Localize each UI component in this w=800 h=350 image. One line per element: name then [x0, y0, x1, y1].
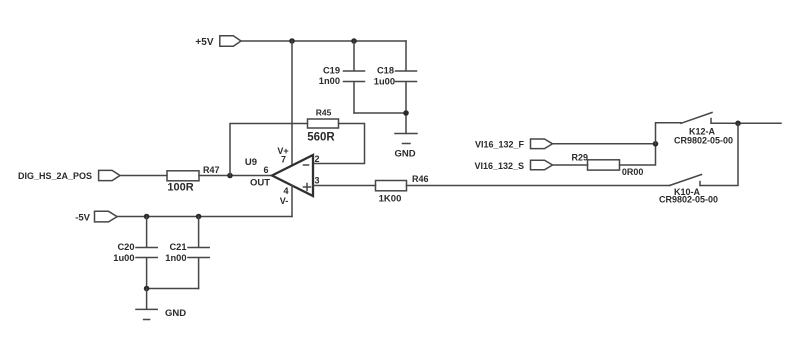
capacitor C18 1u00: [374, 41, 417, 134]
wire V- pin 4 vertical: [291, 186, 293, 217]
wire feedback loop right to pin 2: [313, 124, 365, 164]
relay switch K12-A CR9802-05-00: [674, 113, 738, 146]
svg-text:DIG_HS_2A_POS: DIG_HS_2A_POS: [18, 171, 92, 181]
junction node C18/C19 bottom: [403, 110, 409, 116]
svg-text:VI16_132_F: VI16_132_F: [475, 139, 525, 149]
svg-text:CR9802-05-00: CR9802-05-00: [674, 136, 733, 146]
capacitor C20 1u00: [113, 217, 157, 289]
svg-text:R46: R46: [412, 174, 429, 184]
junction node output/feedback: [227, 173, 233, 179]
net flag DIG_HS_2A_POS: [18, 170, 120, 181]
svg-text:1u00: 1u00: [113, 253, 134, 263]
wire K12 out to right: [738, 122, 781, 124]
svg-text:1u00: 1u00: [374, 77, 395, 87]
op-amp U9: [245, 146, 313, 206]
svg-text:C21: C21: [169, 242, 186, 252]
wire flag to R47: [121, 175, 168, 177]
svg-text:C20: C20: [117, 242, 134, 252]
svg-text:GND: GND: [394, 149, 415, 160]
wire R47 to op-amp output: [199, 175, 272, 177]
svg-text:C19: C19: [323, 66, 340, 76]
svg-text:4: 4: [283, 186, 288, 196]
capacitor C19 1n00: [319, 41, 365, 113]
svg-text:1n00: 1n00: [165, 253, 186, 263]
capacitor C21 1n00: [165, 217, 209, 289]
svg-text:VI16_132_S: VI16_132_S: [474, 161, 524, 171]
wire C21 bottom to C20 bottom: [147, 288, 199, 290]
junction node C21 top: [196, 214, 202, 220]
wire +5V rail: [241, 40, 406, 42]
svg-text:GND: GND: [165, 308, 186, 319]
resistor R47 100R: [167, 165, 220, 194]
junction node V+ rail: [289, 38, 295, 44]
resistor R46 1K00: [376, 174, 429, 205]
wire R29 up to F junction: [620, 144, 656, 165]
svg-text:6: 6: [263, 165, 268, 175]
wire -5V rail: [117, 216, 292, 218]
resistor R45 560R: [307, 108, 338, 144]
wire junction up to K12-A: [656, 123, 682, 144]
power flag +5V: [195, 36, 241, 48]
ground GND lower: [136, 289, 186, 320]
wire C19 bottom to gnd junction: [354, 112, 406, 114]
svg-text:3: 3: [315, 176, 320, 186]
junction node C19 top: [351, 38, 357, 44]
svg-text:560R: 560R: [307, 132, 335, 144]
wire K12 junction down to K10: [701, 123, 739, 185]
junction node K12 out: [735, 121, 741, 127]
wire R46 to K10-A: [407, 185, 670, 187]
wire F flag to junction: [553, 143, 656, 145]
resistor R29 0R00: [572, 153, 644, 178]
svg-text:+5V: +5V: [195, 37, 213, 48]
svg-text:100R: 100R: [167, 182, 193, 194]
wire feedback loop left/top: [230, 124, 308, 176]
wire S flag to R29: [553, 164, 588, 166]
plus mark pin 3: [304, 184, 311, 191]
svg-text:V-: V-: [280, 196, 289, 206]
svg-text:R29: R29: [572, 153, 589, 163]
wire pin 3 to R46: [313, 185, 376, 187]
svg-text:0R00: 0R00: [622, 167, 644, 177]
net flag VI16_132_S: [474, 160, 552, 171]
svg-text:OUT: OUT: [250, 177, 270, 188]
minus mark pin 2: [304, 164, 309, 166]
junction node C20/C21 bottom: [144, 286, 150, 292]
ground GND upper: [394, 134, 417, 160]
wire V+ pin 7 vertical: [291, 41, 293, 166]
svg-text:C18: C18: [377, 66, 394, 76]
svg-text:R47: R47: [203, 165, 220, 175]
svg-text:-5V: -5V: [75, 212, 90, 223]
svg-text:1K00: 1K00: [379, 194, 402, 205]
svg-text:2: 2: [315, 154, 320, 164]
power flag -5V: [75, 211, 117, 223]
svg-text:U9: U9: [245, 157, 257, 168]
junction node F/S: [653, 141, 659, 147]
net flag VI16_132_F: [475, 139, 553, 149]
relay switch K10-A CR9802-05-00: [659, 175, 718, 205]
svg-text:CR9802-05-00: CR9802-05-00: [659, 195, 718, 205]
svg-text:1n00: 1n00: [319, 76, 340, 86]
junction node C20 top: [144, 214, 150, 220]
svg-text:R45: R45: [316, 108, 332, 118]
svg-text:7: 7: [281, 155, 286, 165]
